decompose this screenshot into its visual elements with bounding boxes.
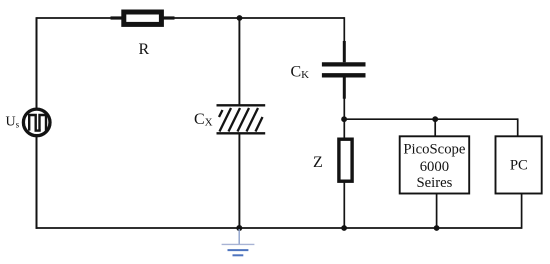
wire scope bottom stub	[436, 194, 438, 229]
wire bottom horizontal	[36, 227, 522, 229]
svg-text:6000: 6000	[420, 159, 449, 175]
wire PC bottom corner	[521, 194, 523, 229]
voltage source U_s	[23, 109, 50, 136]
wire right vertical from top to Ck	[343, 17, 345, 42]
wire scope top stub	[434, 119, 436, 137]
node junction scope top	[432, 116, 438, 122]
node junction scope bottom	[434, 225, 440, 231]
svg-text:PicoScope: PicoScope	[403, 141, 465, 157]
node junction Z top	[341, 116, 347, 122]
wire horizontal measuring tap	[344, 118, 518, 120]
wire left vertical lower	[36, 137, 38, 229]
svg-text:R: R	[139, 41, 150, 58]
impedance Z	[339, 139, 352, 181]
wire Ck to Z	[343, 98, 345, 140]
node junction Z bottom	[341, 225, 347, 231]
svg-text:Seires: Seires	[416, 175, 452, 191]
wire top horizontal	[37, 17, 345, 19]
wire Cx vertical lower	[238, 133, 240, 228]
capacitor Cx (hatched test object)	[217, 105, 266, 133]
svg-text:PC: PC	[510, 158, 528, 174]
wire PC top corner	[517, 118, 519, 137]
ground	[222, 229, 255, 255]
svg-text:Z: Z	[313, 154, 323, 171]
wire left vertical upper	[36, 17, 38, 108]
wire Cx vertical upper	[238, 18, 240, 105]
wire Z bottom	[343, 181, 345, 228]
box PicoScope 6000 Seires	[400, 136, 470, 193]
box PC	[496, 136, 542, 193]
resistor R	[111, 12, 175, 24]
node junction top (Cx tap)	[237, 15, 243, 21]
node junction ground	[236, 225, 242, 231]
capacitor Ck	[322, 41, 366, 99]
